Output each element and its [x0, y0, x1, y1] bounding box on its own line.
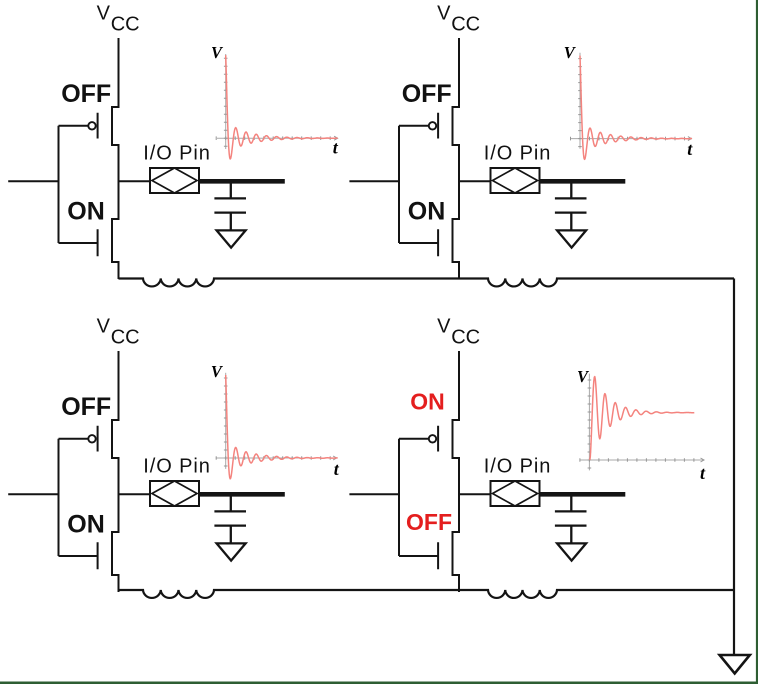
svg-text:OFF: OFF [402, 80, 452, 108]
svg-text:I/O Pin: I/O Pin [143, 456, 210, 478]
svg-text:I/O Pin: I/O Pin [143, 143, 210, 165]
svg-text:CC: CC [111, 326, 140, 348]
svg-text:I/O Pin: I/O Pin [484, 456, 551, 478]
svg-text:ON: ON [67, 198, 105, 226]
svg-text:V: V [97, 316, 111, 338]
svg-text:CC: CC [451, 326, 480, 348]
svg-text:I/O Pin: I/O Pin [484, 143, 551, 165]
svg-text:OFF: OFF [61, 80, 111, 108]
svg-text:V: V [437, 3, 451, 25]
svg-text:CC: CC [451, 13, 480, 35]
svg-text:OFF: OFF [61, 393, 111, 421]
svg-text:V: V [437, 316, 451, 338]
svg-text:ON: ON [408, 198, 446, 226]
svg-text:CC: CC [111, 13, 140, 35]
svg-text:ON: ON [67, 511, 105, 539]
svg-text:ON: ON [410, 389, 445, 415]
svg-text:OFF: OFF [406, 509, 452, 535]
svg-text:V: V [97, 3, 111, 25]
